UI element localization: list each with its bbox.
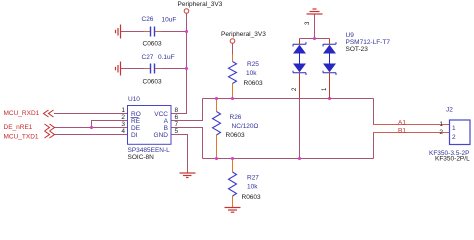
junction C27 tap on 3V3 vertical bbox=[185, 67, 188, 70]
svg-text:PSM712-LF-T7: PSM712-LF-T7 bbox=[346, 39, 391, 46]
svg-text:A1: A1 bbox=[398, 119, 406, 126]
transceiver U10 SP3485 body bbox=[128, 106, 172, 145]
svg-text:C0603: C0603 bbox=[143, 79, 163, 86]
wire U9 pin 2 branch crossing A rail down to B rail bbox=[299, 73, 301, 159]
wire R26 bottom lead to B rail bbox=[216, 135, 218, 159]
wire U10 pin 6 (A) up to top rail bbox=[171, 99, 203, 121]
wire R25 top lead (orange pin) bbox=[232, 54, 234, 62]
junction U9 pin 2 on B rail bbox=[298, 157, 301, 160]
svg-text:2: 2 bbox=[121, 114, 125, 121]
U9 left branch pin leads (red) bbox=[299, 39, 301, 99]
wire U10 pin 7 (B) down to bottom rail bbox=[171, 128, 203, 159]
svg-text:B1: B1 bbox=[398, 127, 406, 134]
wire Peripheral_3V3 to R25 top bbox=[232, 44, 234, 55]
svg-text:3: 3 bbox=[121, 121, 125, 128]
svg-text:J2: J2 bbox=[446, 107, 453, 114]
svg-text:DE_nRE1: DE_nRE1 bbox=[4, 124, 33, 131]
svg-text:C26: C26 bbox=[142, 16, 154, 23]
svg-text:0.1uF: 0.1uF bbox=[158, 54, 175, 61]
wire C26 left pin lead bbox=[144, 31, 150, 33]
svg-text:R27: R27 bbox=[247, 175, 259, 182]
svg-text:2: 2 bbox=[452, 134, 456, 141]
junction R27 top on B rail bbox=[231, 157, 234, 160]
power port Peripheral_3V3 (right instance) bbox=[221, 31, 266, 44]
wire R27 top lead from B rail bbox=[232, 159, 234, 173]
wire branch from DE_nRE1 up to U10 pin 2 (RE) bbox=[92, 121, 128, 128]
ground for R27 bbox=[225, 208, 241, 213]
svg-text:Peripheral_3V3: Peripheral_3V3 bbox=[221, 31, 266, 38]
connector J2 body bbox=[450, 120, 471, 145]
svg-text:C27: C27 bbox=[142, 54, 154, 61]
svg-text:1: 1 bbox=[121, 107, 125, 114]
svg-text:U9: U9 bbox=[346, 32, 355, 39]
svg-text:A: A bbox=[164, 118, 169, 125]
wire R27 bottom lead to ground bbox=[232, 196, 234, 207]
junction R26 bottom on B rail bbox=[215, 157, 218, 160]
wire DE_nRE1 to U10 pin 3 (DE) bbox=[54, 127, 128, 129]
svg-text:10uF: 10uF bbox=[162, 17, 177, 24]
svg-text:DE: DE bbox=[131, 125, 141, 132]
resistor R26 bbox=[213, 112, 221, 136]
svg-text:2: 2 bbox=[439, 129, 443, 136]
wire net B up to J2 pin 2 row bbox=[373, 133, 375, 159]
wire MCU_RXD1 to U10 pin 1 (RO) bbox=[54, 113, 128, 115]
capacitor C26 bbox=[151, 27, 155, 37]
port MCU_TXD1 (output arrow) bbox=[4, 131, 55, 140]
svg-text:RE: RE bbox=[131, 118, 141, 125]
svg-text:GND: GND bbox=[154, 132, 169, 139]
svg-text:SP3485EEN-L: SP3485EEN-L bbox=[128, 147, 171, 154]
wire C27 right (C27 to 3V3 vertical) bbox=[155, 68, 187, 70]
svg-text:VCC: VCC bbox=[154, 111, 168, 118]
power port Peripheral_3V3 (left instance) bbox=[178, 1, 223, 13]
wire U9 pin 1 branch to A rail bbox=[329, 73, 331, 99]
ground for C27 (sideways earth) bbox=[116, 62, 121, 76]
svg-text:SOIC-8N: SOIC-8N bbox=[128, 154, 155, 161]
svg-text:8: 8 bbox=[175, 107, 179, 114]
junction U9 pin 3 on top bar bbox=[313, 37, 316, 40]
resistor R25 bbox=[229, 62, 237, 84]
ground for U10 pin 5 bbox=[180, 173, 196, 178]
svg-text:4: 4 bbox=[121, 128, 125, 135]
wire net A down to J2 pin 1 row bbox=[373, 99, 375, 125]
svg-text:10k: 10k bbox=[246, 70, 257, 77]
wire C26 left (ground to C26) bbox=[121, 31, 151, 33]
ground for U9 pin 3 (flipped up) bbox=[307, 9, 323, 14]
wire C27 left (ground to C27) bbox=[121, 68, 151, 70]
TVS diode U9 right-bottom (zener down) bbox=[323, 54, 336, 76]
svg-text:B: B bbox=[164, 125, 168, 132]
wire U9 top bar joining both TVS branches bbox=[300, 38, 330, 40]
svg-text:7: 7 bbox=[175, 121, 179, 128]
wire net A1 horizontal to connector J2 pin 1 bbox=[373, 124, 450, 126]
U9 right branch pin leads (red) bbox=[329, 39, 331, 99]
svg-text:RO: RO bbox=[131, 111, 141, 118]
wire C26 right (C26 to 3V3 vertical) bbox=[155, 31, 187, 33]
junction R26 top on A rail bbox=[215, 97, 218, 100]
TVS diode U9 left-top (zener up) bbox=[293, 42, 306, 53]
svg-text:MCU_TXD1: MCU_TXD1 bbox=[4, 133, 39, 140]
svg-text:1: 1 bbox=[439, 121, 443, 128]
wire C27 left pin lead bbox=[144, 68, 150, 70]
junction U9 pin 1 on A rail bbox=[328, 97, 331, 100]
svg-text:5: 5 bbox=[175, 128, 179, 135]
wire MCU_TXD1 to U10 pin 4 (DI) bbox=[54, 134, 128, 136]
junction C26 tap on 3V3 vertical bbox=[185, 30, 188, 33]
svg-text:1: 1 bbox=[452, 125, 456, 132]
capacitor C27 bbox=[151, 64, 155, 74]
svg-text:U10: U10 bbox=[128, 96, 140, 103]
resistor R27 bbox=[229, 172, 237, 196]
svg-text:R0603: R0603 bbox=[226, 132, 246, 139]
wire bottom rail, net B bbox=[203, 158, 374, 160]
svg-text:R26: R26 bbox=[230, 114, 242, 121]
port MCU_RXD1 (input arrow) bbox=[4, 110, 54, 117]
svg-text:10k: 10k bbox=[247, 184, 258, 191]
wire U10 pin 5 (GND) to ground bbox=[171, 135, 188, 173]
svg-text:MCU_RXD1: MCU_RXD1 bbox=[4, 110, 40, 117]
svg-text:NC/120Ω: NC/120Ω bbox=[232, 123, 259, 130]
svg-text:DI: DI bbox=[131, 132, 138, 139]
junction DE_nRE1 branch bbox=[90, 126, 93, 129]
svg-text:Peripheral_3V3: Peripheral_3V3 bbox=[178, 1, 223, 8]
junction R25 bottom on A rail bbox=[231, 97, 234, 100]
port DE_nRE1 (output arrow) bbox=[4, 124, 55, 131]
ground for C26 (sideways earth) bbox=[116, 25, 121, 39]
wire net B1 horizontal to connector J2 pin 2 bbox=[373, 132, 450, 134]
TVS diode U9 right-top (zener up) bbox=[323, 42, 336, 53]
svg-text:R0603: R0603 bbox=[242, 194, 262, 201]
svg-text:C0603: C0603 bbox=[143, 41, 163, 48]
wire R26 top lead from A rail bbox=[216, 99, 218, 112]
wire C27 right pin lead bbox=[155, 68, 161, 70]
wire Peripheral_3V3 vertical down to U10 pin 8 (VCC) bbox=[171, 14, 187, 114]
svg-text:6: 6 bbox=[175, 114, 179, 121]
svg-text:R0603: R0603 bbox=[244, 80, 264, 87]
pin name RE with overline bbox=[131, 118, 141, 126]
svg-text:SOT-23: SOT-23 bbox=[346, 46, 369, 53]
wire R25 bottom lead to A rail bbox=[232, 84, 234, 99]
svg-text:KF350-2P/L: KF350-2P/L bbox=[435, 156, 470, 163]
wire C26 right pin lead bbox=[155, 31, 161, 33]
svg-text:R25: R25 bbox=[247, 61, 259, 68]
wire top rail, net A bbox=[203, 98, 374, 100]
wire U9 pin 3 stem up to ground bbox=[314, 15, 316, 39]
TVS diode U9 left-bottom (zener down) bbox=[293, 54, 306, 76]
